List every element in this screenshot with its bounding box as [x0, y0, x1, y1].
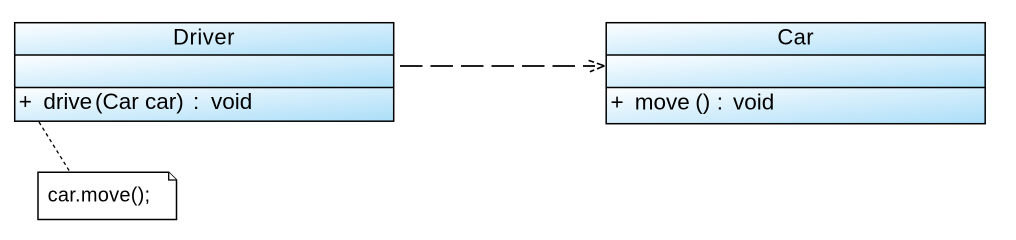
- note fold triangle: [169, 172, 177, 180]
- note anchor dashed line: [39, 122, 70, 172]
- svg-text:Car: Car: [777, 25, 814, 50]
- svg-text:car.move();: car.move();: [48, 184, 151, 206]
- class Car title compartment: [606, 23, 985, 55]
- dependency dashed shaft: [400, 65, 595, 67]
- class Driver divider 1: [15, 54, 394, 56]
- dependency open arrowhead upper barb: [589, 60, 605, 66]
- class Driver attribute compartment: [15, 55, 394, 88]
- class Car: [606, 23, 985, 124]
- note car.move();: [38, 172, 177, 219]
- class Driver title compartment: [15, 23, 394, 55]
- dependency arrow Driver to Car: [400, 60, 604, 71]
- class Driver method compartment: [15, 88, 394, 122]
- svg-text:Driver: Driver: [173, 25, 235, 50]
- svg-text:+drive(Car car):void: +drive(Car car):void: [19, 89, 252, 114]
- class Car method compartment: [606, 88, 985, 124]
- class Driver divider 2: [15, 87, 394, 89]
- class Driver border: [15, 23, 394, 122]
- class Car divider 1: [606, 54, 985, 56]
- note body with folded corner: [38, 172, 177, 219]
- class Car attribute compartment: [606, 55, 985, 88]
- dependency open arrowhead lower barb: [590, 66, 605, 72]
- class Car border: [606, 23, 985, 124]
- class Car divider 2: [606, 87, 985, 89]
- class Driver: [15, 23, 394, 122]
